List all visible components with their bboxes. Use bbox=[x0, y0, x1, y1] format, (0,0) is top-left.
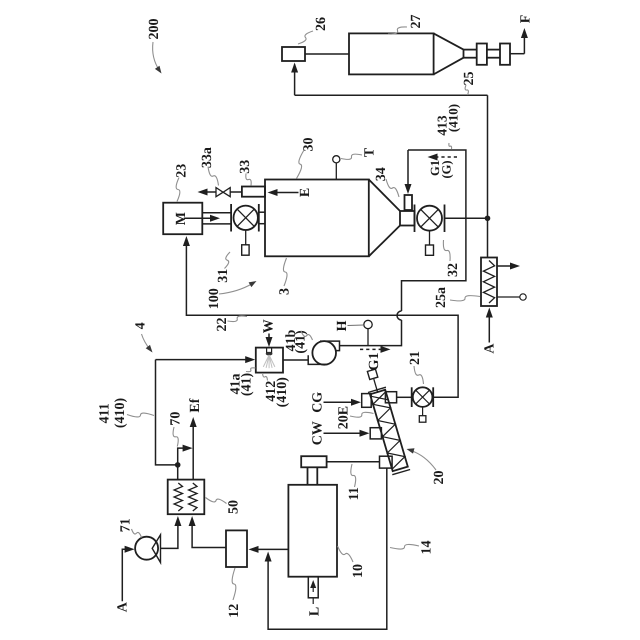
svg-text:F: F bbox=[518, 15, 533, 24]
duct 413(410) path bbox=[402, 150, 466, 311]
wire line 25 horizontal bbox=[295, 94, 488, 96]
CG arrow bbox=[351, 399, 361, 406]
box 26 (cyclone inlet unit) bbox=[282, 47, 305, 61]
vent arrow out bbox=[198, 189, 208, 196]
cyclone outlet tube bottom bbox=[464, 57, 477, 59]
vessel 10 neck left bbox=[307, 467, 309, 485]
fan32 X 1 bbox=[421, 209, 439, 227]
leader 11 bbox=[351, 464, 356, 487]
wire humidifier to pump 41b bbox=[283, 359, 308, 361]
conveyor bottom feed port bbox=[380, 456, 393, 468]
blower 71 circle bbox=[135, 537, 158, 560]
vessel 10 top tee bbox=[301, 456, 326, 467]
leader 30 bbox=[297, 150, 305, 179]
wire line 11 bbox=[327, 461, 380, 463]
svg-text:33: 33 bbox=[238, 160, 253, 174]
blower 71 triangle bbox=[152, 535, 160, 563]
HX25a terminal circle bbox=[520, 294, 526, 300]
fan 31 bbox=[230, 204, 232, 232]
svg-text:200: 200 bbox=[147, 19, 162, 40]
thermometer T circle bbox=[333, 156, 340, 163]
wire vessel10 to box 12 bbox=[257, 548, 289, 550]
junction dot line411/HX50/line70 bbox=[175, 462, 181, 468]
svg-text:12: 12 bbox=[227, 604, 242, 618]
arrow E (vapor to pipe 33) bbox=[268, 189, 278, 196]
arrow F out bbox=[521, 28, 528, 38]
svg-text:31: 31 bbox=[216, 269, 231, 283]
vessel 10 body bbox=[288, 485, 337, 577]
svg-text:Ef: Ef bbox=[188, 398, 203, 412]
pump 41b inlet scoop bbox=[308, 355, 328, 364]
svg-text:22: 22 bbox=[215, 318, 230, 332]
leader 31 bbox=[225, 252, 231, 269]
vessel 3 (30) body bbox=[265, 180, 369, 257]
svg-text:CW: CW bbox=[311, 421, 326, 445]
fan21 X 1 bbox=[416, 390, 430, 404]
H sensor stem bbox=[367, 329, 369, 346]
svg-text:70: 70 bbox=[168, 412, 183, 426]
fan31 motor stem bbox=[245, 230, 247, 245]
H sensor circle bbox=[364, 320, 372, 328]
arrowhead dashed G1(G) bbox=[428, 154, 438, 161]
leader 412 bbox=[263, 373, 268, 381]
fan 32 bbox=[414, 205, 416, 233]
svg-text:CG: CG bbox=[311, 392, 326, 413]
fan32 motor stem bbox=[429, 231, 431, 245]
line hop over line 22 bbox=[397, 311, 402, 320]
arrowhead G1 flow bbox=[381, 346, 391, 353]
leader 20E bbox=[350, 412, 374, 417]
L stub below bbox=[312, 598, 314, 604]
svg-text:(G): (G) bbox=[439, 160, 453, 178]
leader H bbox=[348, 324, 364, 327]
Ef arrow bbox=[190, 417, 197, 427]
wire A inlet bbox=[122, 549, 128, 601]
conveyor bottom end cap bbox=[392, 470, 410, 475]
svg-text:3: 3 bbox=[277, 288, 292, 295]
wire Ef vent line bbox=[192, 422, 194, 480]
HX25a outlet line bbox=[497, 265, 515, 267]
arrow into box 12 bbox=[249, 546, 259, 553]
dashed G1 flow near pump bbox=[360, 348, 381, 350]
leader 3 bbox=[283, 258, 287, 286]
leader 4 arrow bbox=[142, 334, 151, 350]
arrowhead 20 bbox=[407, 448, 415, 453]
wire box12 to HX50 bbox=[192, 525, 226, 548]
leader 413 bbox=[449, 143, 452, 150]
wire blower71 to HX50 bbox=[161, 525, 178, 548]
svg-text:(410): (410) bbox=[275, 377, 290, 408]
wire line 25 vertical bbox=[487, 95, 489, 257]
conveyor flight crossing line bbox=[371, 396, 389, 400]
vent line bbox=[205, 191, 216, 193]
leader 12 bbox=[232, 568, 236, 600]
rotary valve flange 1 bbox=[477, 44, 487, 65]
fitting 34 bbox=[405, 195, 413, 210]
svg-text:34: 34 bbox=[374, 167, 389, 181]
L arrow line bbox=[312, 583, 314, 592]
CG inlet port bbox=[362, 394, 372, 408]
vessel 10 neck right bbox=[316, 467, 318, 485]
leader 14 bbox=[390, 544, 419, 549]
L inlet pipe bbox=[308, 577, 318, 598]
HX 25a coil bbox=[483, 261, 494, 304]
W inlet line bbox=[268, 334, 270, 343]
fan21 X 2 bbox=[416, 390, 430, 404]
svg-text:G1: G1 bbox=[367, 353, 382, 371]
svg-text:14: 14 bbox=[419, 541, 434, 555]
conveyor top outlet port bbox=[385, 392, 396, 403]
leader 411 bbox=[127, 413, 154, 417]
svg-text:33a: 33a bbox=[200, 147, 215, 168]
arrowhead 200 bbox=[155, 66, 162, 74]
leader 10 bbox=[338, 546, 354, 562]
svg-text:20E: 20E bbox=[337, 406, 352, 429]
A arrow into HX25a bbox=[486, 308, 493, 318]
HX50 coil right bbox=[189, 483, 197, 511]
fan32 X 2 bbox=[421, 209, 439, 227]
svg-text:100: 100 bbox=[207, 288, 222, 309]
HX25a outlet arrow bbox=[510, 263, 520, 270]
svg-text:(41): (41) bbox=[240, 373, 255, 397]
arrow into HX50 left coil bbox=[174, 516, 181, 526]
svg-text:50: 50 bbox=[227, 500, 242, 514]
wire HX50 left coil up to junction bbox=[177, 465, 179, 480]
wire line 70 branch bbox=[178, 448, 188, 465]
leader 71 bbox=[132, 529, 142, 538]
leader 41a bbox=[246, 368, 256, 372]
arrow line14 up into junction bbox=[265, 552, 272, 562]
leader 21 bbox=[414, 366, 424, 384]
fan31 X 1 bbox=[237, 209, 254, 226]
svg-text:10: 10 bbox=[351, 564, 366, 578]
svg-text:W: W bbox=[262, 319, 277, 333]
fan31 motor block bbox=[242, 245, 249, 255]
wire duct down to pump outlet bbox=[340, 320, 402, 346]
duct M-fan31 upper bbox=[202, 212, 231, 214]
HX50 coil left bbox=[174, 483, 182, 511]
wire valve to pipe 33 bbox=[230, 191, 242, 193]
rotary valve flange 2 bbox=[500, 44, 510, 65]
fan32 motor block bbox=[426, 245, 434, 255]
leader 200 arrow bbox=[153, 42, 160, 71]
svg-text:21: 21 bbox=[408, 351, 423, 365]
heat exchanger 50 bbox=[168, 480, 205, 515]
pump 41b outlet scoop bbox=[320, 341, 340, 351]
svg-text:L: L bbox=[308, 607, 323, 616]
fan31 stub to vessel top bbox=[259, 211, 265, 213]
junction dot fan32-line / line25 bbox=[485, 215, 491, 221]
leader 32 bbox=[443, 240, 450, 261]
flow arrow line in duct bbox=[184, 217, 212, 219]
leader 33 bbox=[246, 174, 251, 186]
humidifier box 41a(41) bbox=[256, 348, 283, 373]
leader 25 bbox=[465, 85, 468, 95]
valve 33a left triangle bbox=[216, 188, 223, 197]
leader 33a bbox=[208, 167, 219, 186]
A air line into HX25a bbox=[488, 312, 490, 343]
L arrow up bbox=[310, 580, 316, 588]
wire line 22 bbox=[186, 244, 458, 397]
arrow into HX50 right coil bbox=[189, 516, 196, 526]
outlet tee fitting bbox=[400, 211, 415, 226]
arrow into fitting 34 bbox=[405, 184, 412, 194]
svg-text:27: 27 bbox=[409, 15, 424, 29]
wire line 4 horizontal bbox=[156, 359, 248, 361]
svg-text:(41): (41) bbox=[293, 330, 308, 354]
fan32 outlet to line 25 bbox=[445, 217, 488, 219]
W arrow into nozzle bbox=[266, 337, 273, 347]
flange connector top bbox=[487, 49, 500, 51]
dashed gas flow in duct bbox=[434, 156, 457, 158]
wire duct into fitting 34 bbox=[407, 150, 409, 188]
svg-text:4: 4 bbox=[134, 322, 149, 329]
wire conveyor port to fan21 bbox=[397, 396, 412, 398]
leader T bbox=[341, 154, 362, 159]
arrowhead 4 bbox=[146, 345, 153, 353]
arrow into box 23 bottom bbox=[183, 236, 190, 246]
wire line 4/411 vertical bbox=[156, 360, 178, 465]
cyclone cone upper edge bbox=[434, 33, 464, 49]
screw conveyor 20 body bbox=[370, 390, 408, 471]
svg-text:32: 32 bbox=[446, 263, 461, 277]
conveyor screw flights bbox=[373, 392, 405, 470]
CG line bbox=[324, 401, 353, 403]
svg-text:26: 26 bbox=[314, 17, 329, 31]
HX25a sensor line bbox=[497, 296, 520, 298]
arrowhead 100 bbox=[249, 281, 257, 287]
fan21 motor block bbox=[419, 416, 426, 423]
svg-text:23: 23 bbox=[175, 164, 190, 178]
arrow line70 into Ef line bbox=[183, 445, 193, 452]
leader 34 bbox=[386, 179, 399, 197]
wire box26 to cyclone bbox=[305, 53, 349, 55]
CW inlet port bbox=[370, 428, 381, 439]
flange connector bottom bbox=[487, 57, 500, 59]
pump 41b circle bbox=[312, 341, 336, 365]
svg-text:A: A bbox=[116, 601, 131, 612]
wire to F bbox=[510, 53, 524, 55]
leader 26 bbox=[298, 31, 313, 44]
leader 25a bbox=[450, 296, 480, 301]
leader 20 arrow bbox=[411, 451, 437, 471]
vessel cone lower bbox=[369, 226, 400, 257]
spray nozzle head bbox=[266, 352, 273, 355]
arrow into humidifier bbox=[245, 356, 255, 363]
svg-text:(410): (410) bbox=[113, 398, 128, 429]
svg-text:30: 30 bbox=[302, 138, 317, 152]
svg-text:20: 20 bbox=[432, 471, 447, 485]
vessel cone upper bbox=[369, 180, 400, 212]
leader 41b bbox=[301, 331, 313, 340]
spray fan lines bbox=[269, 355, 275, 367]
leader 100 arrow bbox=[219, 284, 253, 295]
duct M-fan31 lower bbox=[202, 223, 231, 225]
svg-text:25: 25 bbox=[462, 72, 477, 86]
cyclone outlet tube top bbox=[464, 49, 477, 51]
leader 50 bbox=[206, 498, 227, 504]
pipe 33 bbox=[242, 187, 265, 197]
fan 21 bbox=[411, 387, 413, 407]
cyclone tube end bbox=[463, 50, 465, 58]
fan21 motor stem bbox=[422, 407, 424, 416]
svg-text:(410): (410) bbox=[446, 104, 461, 132]
arrow into box 26 bbox=[291, 63, 298, 73]
svg-text:A: A bbox=[482, 343, 497, 354]
box 23 with M bbox=[163, 203, 202, 235]
leader 27 bbox=[388, 27, 407, 34]
box 12 bbox=[226, 530, 247, 567]
wire up into box 26 bbox=[294, 65, 296, 96]
cyclone cone lower edge bbox=[434, 58, 464, 75]
svg-text:25a: 25a bbox=[434, 287, 449, 308]
spray nozzle 412 notch bbox=[267, 348, 272, 353]
leader 70 bbox=[173, 427, 178, 447]
fan31 X 2 bbox=[237, 209, 254, 226]
svg-text:11: 11 bbox=[347, 487, 362, 500]
CW arrow bbox=[360, 430, 370, 437]
A arrow into blower bbox=[125, 546, 135, 553]
flow arrowhead in duct bbox=[210, 215, 220, 222]
leader 22 bbox=[228, 316, 248, 322]
valve 33a right triangle bbox=[223, 188, 230, 197]
conveyor drive shaft bbox=[374, 379, 378, 392]
conveyor top end cap bbox=[368, 387, 386, 392]
cyclone 27 body bbox=[349, 33, 434, 74]
heat exchanger 25a bbox=[481, 258, 497, 307]
fan31 stub to vessel bottom bbox=[259, 223, 265, 225]
conveyor motor square bbox=[367, 369, 377, 379]
svg-text:T: T bbox=[363, 147, 378, 157]
svg-text:411: 411 bbox=[97, 403, 112, 423]
T stem bbox=[335, 163, 337, 180]
wire F riser bbox=[523, 31, 525, 54]
E arrow line bbox=[276, 192, 299, 194]
leader 23 bbox=[176, 178, 180, 202]
wire line 14 bbox=[268, 468, 387, 629]
CW line bbox=[324, 432, 362, 434]
svg-text:E: E bbox=[298, 188, 313, 197]
